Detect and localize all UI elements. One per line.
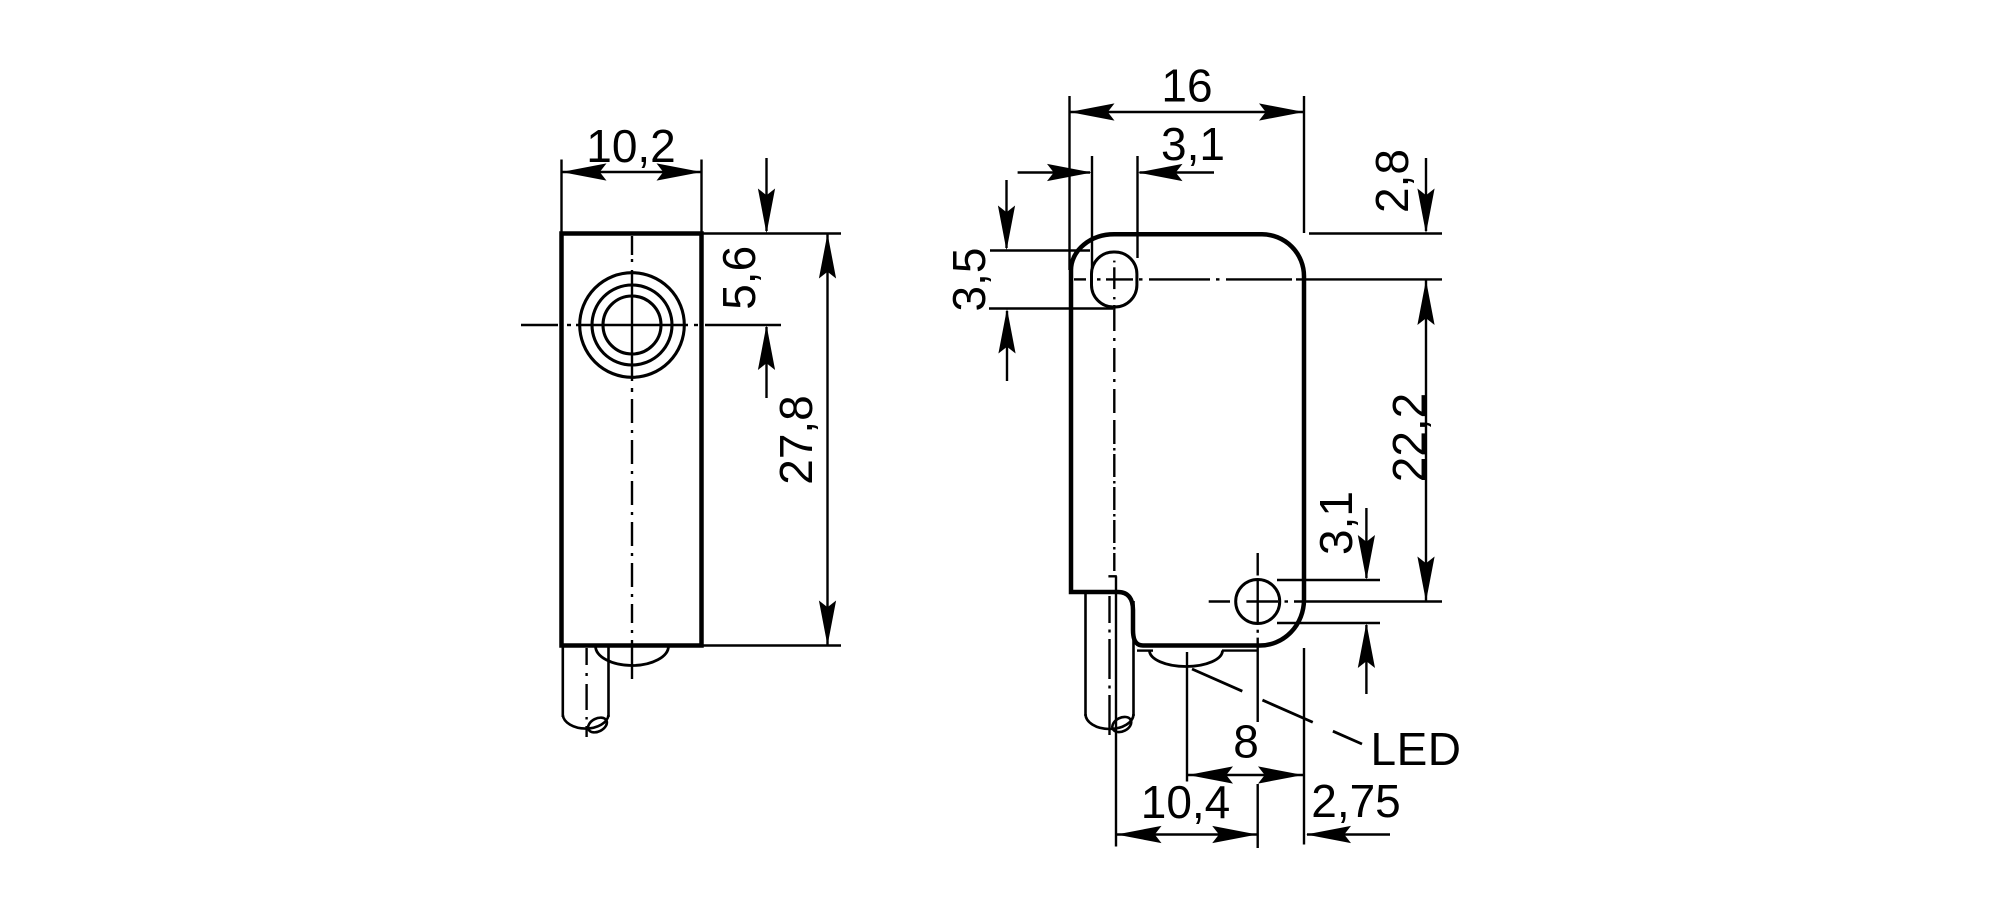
svg-text:8: 8 [1233,716,1259,768]
svg-text:22,2: 22,2 [1383,393,1435,483]
sensing face circles [580,273,685,378]
svg-text:10,4: 10,4 [1141,776,1231,828]
svg-text:3,5: 3,5 [943,248,995,312]
dimension 16 extension lines [1070,96,1305,270]
left view cable [563,646,610,735]
dimension 3,1 arrows top [1018,164,1214,181]
dimension 27,8 bottom extension [704,644,842,646]
slot tangent extension lines [1092,156,1138,268]
left view bottom dome arc [596,646,669,666]
svg-text:LED: LED [1371,723,1462,775]
dimension 10,2 line and arrows [562,163,702,180]
svg-text:2,75: 2,75 [1311,775,1401,827]
dimension 8 extension lines [1187,648,1304,845]
dimension 8 line and arrows [1187,766,1304,783]
left view vertical centerline [631,236,633,679]
bottom hole horizontal centerline [1209,600,1288,602]
top mounting slot [1092,252,1137,307]
LED leader line [1192,669,1362,744]
cable edge visible in notch [1108,576,1116,846]
dimension 5,6 arrow top [758,158,775,234]
left view horizontal centerline [521,324,781,326]
right view bottom dome arc [1150,651,1223,667]
dimension 3,1 arrows bottom [1358,508,1375,694]
dimension 10,4 line and arrows [1116,826,1258,843]
svg-text:3,1: 3,1 [1161,118,1225,170]
hole tangent extension lines [1277,580,1380,623]
dimension 3,5 arrows [998,180,1016,381]
bottom mounting hole [1236,580,1280,624]
bottom face edge lines [1137,649,1257,651]
right view body outline [1071,234,1304,645]
slot horizontal centerline [1074,278,1292,280]
dimension 5,6 arrow bottom [758,325,775,398]
dimension 10,2 extension lines [562,160,702,234]
svg-text:27,8: 27,8 [770,395,822,485]
hole centerline extension right [1294,600,1442,602]
dimension 3,5 extension lines [989,251,1113,309]
svg-text:5,6: 5,6 [713,246,765,310]
svg-text:3,1: 3,1 [1310,491,1362,555]
dimension 16 line and arrows [1070,103,1305,120]
dimension 5,6 top extension [704,232,842,234]
left cable centerline [585,648,587,737]
bottom hole vertical centerline [1256,553,1258,848]
svg-text:16: 16 [1161,60,1212,112]
right cable centerline [1108,596,1110,735]
slot vertical centerline [1113,261,1115,571]
dimension 22,2 line and arrows [1417,280,1434,602]
slot centerline extension right [1296,278,1442,280]
dimension 2,8 arrow [1417,158,1434,234]
svg-text:2,8: 2,8 [1366,149,1418,213]
dimension 2,75 arrow [1306,826,1390,843]
svg-text:10,2: 10,2 [586,120,676,172]
right view cable [1086,593,1134,735]
top edge extension right [1309,232,1442,234]
dimension 27,8 line and arrows [819,234,836,646]
left view body outline [562,234,702,646]
